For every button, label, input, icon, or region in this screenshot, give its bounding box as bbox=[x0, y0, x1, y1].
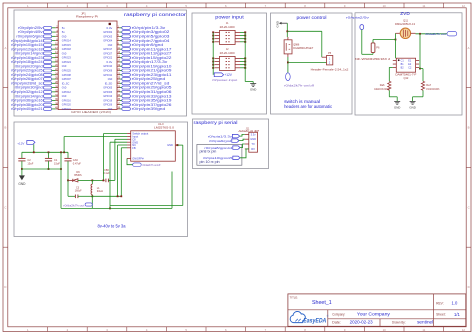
svg-text:NF-WSMF250/16X 2: NF-WSMF250/16X 2 bbox=[355, 57, 391, 61]
svg-text:GPIO09: GPIO09 bbox=[103, 69, 113, 73]
svg-text:GPIO10: GPIO10 bbox=[103, 64, 113, 68]
svg-text:D: D bbox=[468, 285, 470, 289]
svg-text:raspberry pi connector: raspberry pi connector bbox=[124, 12, 187, 17]
svg-text:power control: power control bbox=[297, 15, 327, 21]
svg-text:A: A bbox=[4, 46, 6, 50]
svg-text:GPIO08: GPIO08 bbox=[62, 73, 72, 77]
svg-text:12: 12 bbox=[462, 328, 466, 332]
svg-text:0.47uF: 0.47uF bbox=[73, 161, 81, 165]
svg-text:1.0: 1.0 bbox=[452, 301, 458, 306]
svg-text:C: C bbox=[4, 205, 6, 209]
svg-text:sentinel: sentinel bbox=[417, 320, 433, 325]
svg-text:Q12: Q12 bbox=[403, 76, 408, 80]
svg-text:Sheet_1: Sheet_1 bbox=[312, 300, 332, 306]
svg-text:GPIO18: GPIO18 bbox=[62, 47, 72, 51]
svg-text:GND: GND bbox=[62, 64, 67, 68]
svg-text:GPIO HEADER (2X20): GPIO HEADER (2X20) bbox=[71, 110, 111, 114]
svg-text:3.3v: 3.3v bbox=[251, 132, 257, 136]
svg-text:GND: GND bbox=[62, 94, 67, 98]
svg-text:10: 10 bbox=[383, 328, 387, 332]
svg-text:GPIO03: GPIO03 bbox=[103, 34, 113, 38]
svg-text:Ra6: Ra6 bbox=[380, 83, 385, 87]
svg-text:raspberry pi serial: raspberry pi serial bbox=[194, 120, 238, 125]
svg-text:GND: GND bbox=[275, 21, 279, 27]
svg-text:ZVD: ZVD bbox=[400, 11, 410, 16]
svg-text:Raspberry Pi: Raspberry Pi bbox=[76, 14, 99, 18]
svg-text:r0/rpi/pin40/gpio21: r0/rpi/pin40/gpio21 bbox=[11, 107, 43, 111]
svg-text:+12V: +12V bbox=[17, 141, 24, 145]
svg-text:r0/rpia1/3.3v: r0/rpia1/3.3v bbox=[208, 134, 233, 138]
svg-text:10: 10 bbox=[383, 4, 387, 8]
svg-text:2020-02-23: 2020-02-23 bbox=[350, 320, 374, 325]
svg-text:GPIO19: GPIO19 bbox=[103, 98, 113, 102]
svg-text:GPIO17: GPIO17 bbox=[103, 47, 113, 51]
svg-text:r0/rpia6/gnd: r0/rpia6/gnd bbox=[209, 139, 232, 143]
svg-text:GPIO23: GPIO23 bbox=[62, 56, 72, 60]
svg-text:GND: GND bbox=[108, 107, 113, 111]
svg-text:GPIO20: GPIO20 bbox=[62, 103, 72, 107]
svg-text:EasyEDA: EasyEDA bbox=[303, 317, 326, 324]
svg-text:Date:: Date: bbox=[332, 320, 341, 324]
svg-text:r0/da2k7h out: r0/da2k7h out bbox=[63, 204, 84, 208]
svg-text:r0/power-input: r0/power-input bbox=[212, 78, 237, 82]
svg-text:GPIO26: GPIO26 bbox=[103, 103, 113, 107]
svg-text:GPIO25: GPIO25 bbox=[62, 69, 72, 73]
svg-text:GND: GND bbox=[394, 106, 400, 110]
svg-text:12: 12 bbox=[462, 4, 466, 8]
svg-text:11: 11 bbox=[422, 4, 425, 8]
svg-text:®: ® bbox=[327, 315, 329, 318]
svg-text:GPIO22: GPIO22 bbox=[103, 56, 113, 60]
svg-text:GPIO21: GPIO21 bbox=[62, 107, 72, 111]
svg-text:GPIO15: GPIO15 bbox=[62, 43, 72, 47]
svg-text:REV:: REV: bbox=[436, 302, 444, 306]
svg-text:GPIO05: GPIO05 bbox=[103, 86, 113, 90]
svg-text:Q11: Q11 bbox=[403, 18, 408, 22]
svg-text:3.3v: 3.3v bbox=[106, 26, 113, 30]
svg-text:r0/rpi/pin39/gnd: r0/rpi/pin39/gnd bbox=[132, 107, 166, 111]
svg-text:28-20-1000: 28-20-1000 bbox=[220, 52, 236, 55]
svg-text:33uH: 33uH bbox=[97, 189, 103, 193]
svg-text:r0/da2k7h on/off: r0/da2k7h on/off bbox=[142, 163, 160, 167]
svg-text:FB: FB bbox=[132, 146, 136, 150]
svg-text:GPIO13: GPIO13 bbox=[103, 94, 113, 98]
svg-text:15uF: 15uF bbox=[54, 161, 60, 165]
svg-text:11: 11 bbox=[422, 328, 425, 332]
svg-text:GND: GND bbox=[62, 86, 67, 90]
svg-text:10kΩ±1%±100S: 10kΩ±1%±100S bbox=[374, 89, 390, 91]
svg-text:r0/da2k7h out: r0/da2k7h out bbox=[425, 32, 446, 36]
svg-text:GND: GND bbox=[62, 51, 67, 55]
svg-text:160uF: 160uF bbox=[75, 190, 82, 193]
svg-text:ON/OFF#: ON/OFF# bbox=[132, 157, 144, 161]
svg-text:B: B bbox=[4, 126, 6, 130]
svg-text:power input: power input bbox=[215, 14, 244, 19]
svg-text:r0/da2k7h-on/off: r0/da2k7h-on/off bbox=[284, 83, 314, 87]
svg-text:B: B bbox=[468, 126, 470, 130]
svg-text:RX: RX bbox=[251, 147, 255, 151]
svg-text:Ra7: Ra7 bbox=[426, 83, 431, 87]
svg-text:C: C bbox=[468, 205, 470, 209]
svg-text:GPIO11: GPIO11 bbox=[103, 73, 113, 77]
svg-text:headers are for automatic: headers are for automatic bbox=[284, 104, 332, 109]
svg-text:B530S: B530S bbox=[74, 174, 82, 177]
svg-text:GND: GND bbox=[250, 87, 256, 91]
svg-text:GND: GND bbox=[108, 77, 113, 81]
svg-text:GPIO04: GPIO04 bbox=[103, 39, 113, 43]
svg-text:GND: GND bbox=[108, 43, 113, 47]
svg-text:47kΩ±1%±100S: 47kΩ±1%±100S bbox=[426, 89, 439, 91]
svg-text:r0/rpia10/gpio15: r0/rpia10/gpio15 bbox=[203, 156, 233, 160]
svg-text:Company:: Company: bbox=[332, 313, 345, 317]
svg-text:P6: P6 bbox=[376, 45, 380, 49]
svg-text:GPIO24: GPIO24 bbox=[62, 60, 72, 64]
svg-text:GPIO06: GPIO06 bbox=[103, 90, 113, 94]
svg-text:D: D bbox=[4, 285, 6, 289]
svg-text:pin8 tx pin: pin8 tx pin bbox=[200, 150, 217, 154]
svg-text:pin 10 rx pin: pin 10 rx pin bbox=[200, 160, 220, 164]
svg-text:1/1: 1/1 bbox=[454, 312, 460, 317]
svg-text:GPIO27: GPIO27 bbox=[103, 51, 113, 55]
svg-text:GPIO12: GPIO12 bbox=[62, 90, 72, 94]
svg-text:28-20-1000: 28-20-1000 bbox=[220, 26, 236, 29]
svg-text:Sheet:: Sheet: bbox=[436, 313, 446, 317]
svg-text:Drawn By:: Drawn By: bbox=[392, 320, 406, 324]
svg-text:8v-40v to 5v 3a: 8v-40v to 5v 3a bbox=[98, 224, 127, 229]
svg-text:GPIO02: GPIO02 bbox=[103, 30, 113, 34]
svg-text:DGARB01UHGET: DGARB01UHGET bbox=[293, 47, 313, 50]
svg-text:GND: GND bbox=[62, 34, 67, 38]
svg-text:r0/rpia2/5v: r0/rpia2/5v bbox=[346, 15, 370, 19]
svg-text:GND: GND bbox=[250, 137, 256, 141]
svg-text:TX: TX bbox=[251, 142, 255, 146]
svg-text:3.3v: 3.3v bbox=[106, 60, 113, 64]
svg-text:TITLE:: TITLE: bbox=[290, 295, 299, 299]
svg-text:GPIO07: GPIO07 bbox=[62, 77, 72, 81]
svg-text:Your Company: Your Company bbox=[357, 312, 391, 317]
svg-text:GND: GND bbox=[18, 182, 26, 186]
svg-text:15uF: 15uF bbox=[27, 161, 33, 165]
svg-text:Header-Female-2.54_1x2: Header-Female-2.54_1x2 bbox=[311, 67, 349, 71]
svg-text:GND: GND bbox=[409, 106, 415, 110]
svg-text:ID_SD: ID_SD bbox=[105, 81, 113, 85]
svg-text:GPIO16: GPIO16 bbox=[62, 98, 72, 102]
svg-text:GND: GND bbox=[167, 143, 173, 147]
svg-text:LM2576S-5.0: LM2576S-5.0 bbox=[154, 125, 175, 129]
svg-text:0.1uF: 0.1uF bbox=[103, 172, 110, 175]
svg-text:GPIO14: GPIO14 bbox=[62, 39, 72, 43]
svg-text:A: A bbox=[468, 46, 470, 50]
svg-text:DMG2305UX-13: DMG2305UX-13 bbox=[395, 22, 415, 26]
svg-text:ID_SC: ID_SC bbox=[62, 81, 70, 85]
svg-text:+12V: +12V bbox=[224, 73, 232, 77]
